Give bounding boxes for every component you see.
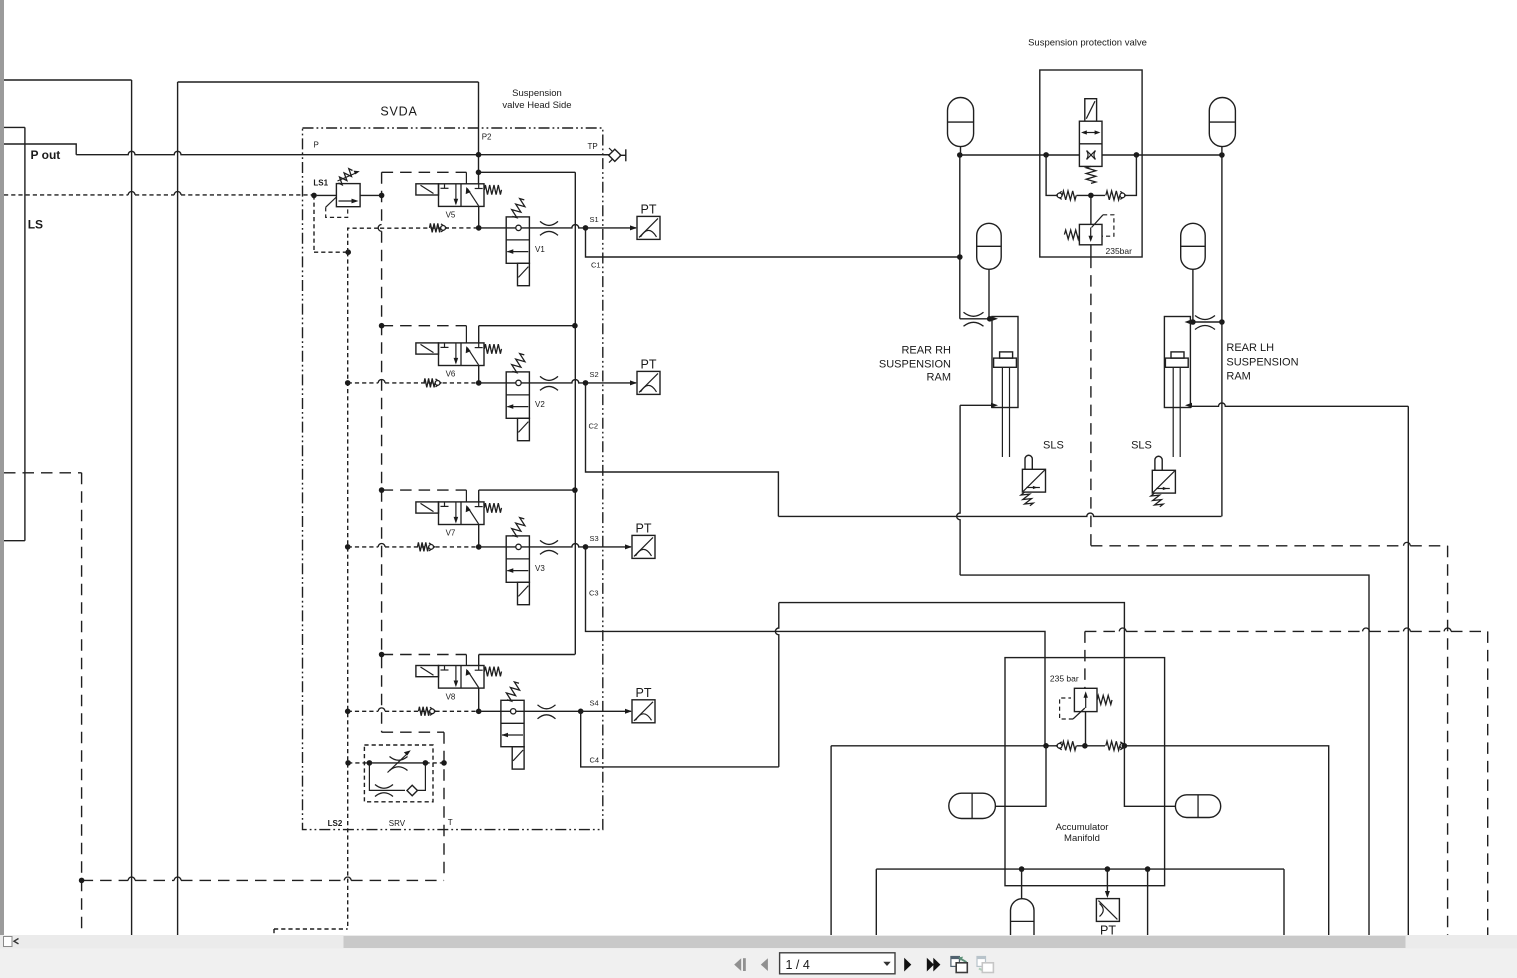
svg-text:V7: V7 bbox=[446, 529, 456, 538]
Accumulator Manifold enclosure bbox=[1005, 658, 1165, 886]
wire pilot stub into V7 bbox=[465, 490, 467, 502]
wire drain long-dash to far right bbox=[1091, 545, 1404, 547]
orifice row V7 bbox=[540, 540, 558, 544]
junction right accumulator bbox=[1219, 152, 1225, 158]
wire supply stub into V8 bbox=[478, 655, 480, 666]
junction left accumulator bbox=[957, 152, 963, 158]
SRV enclosure dashed box bbox=[364, 745, 433, 802]
arrowhead into LH ram head bbox=[1185, 320, 1192, 325]
svg-text:V2: V2 bbox=[535, 400, 545, 409]
wire P2 vertical bbox=[478, 82, 480, 184]
arrowhead into PT S4 bbox=[625, 709, 632, 714]
junction bottom drop bbox=[1145, 866, 1151, 872]
toolbar next-page button bbox=[904, 958, 911, 972]
wire accumulator RH stem bbox=[960, 147, 962, 155]
wire pilot dashed row V6 bbox=[348, 382, 379, 384]
wire between checks bbox=[1077, 194, 1106, 196]
junction supply rail V6 bbox=[572, 323, 578, 329]
wire drain long-dash down x=1447.6 bbox=[1447, 546, 1449, 935]
svg-text:SLS: SLS bbox=[1043, 440, 1064, 452]
relief valve 235 bar (manifold) bbox=[1060, 688, 1112, 719]
svg-text:PT: PT bbox=[641, 358, 657, 372]
wire RH rod vertical (hops C2 line) bbox=[957, 405, 960, 575]
wire V6 output stub bbox=[478, 366, 480, 383]
orifice LH ram head bbox=[1195, 316, 1215, 320]
junction V5 output on S line bbox=[476, 225, 482, 231]
wire prot valve right branch bbox=[1126, 155, 1137, 196]
accumulator rear LH lower bbox=[1181, 223, 1206, 269]
wire manifold check line left feed bbox=[831, 745, 1056, 747]
svg-text:T: T bbox=[448, 818, 453, 827]
svg-text:C3: C3 bbox=[589, 589, 599, 598]
arrowhead into RH ram head bbox=[991, 316, 998, 321]
arrowhead into PT S3 bbox=[625, 544, 632, 549]
wire LH head vertical upper bbox=[1221, 155, 1223, 322]
wire LH rod line down x=1408.3 bbox=[1407, 406, 1409, 935]
wire bottom drop x=1147.6 bbox=[1147, 869, 1149, 935]
svg-text:PT: PT bbox=[636, 686, 652, 700]
wire C3 to manifold bbox=[586, 547, 1046, 746]
junction supply rail V7 bbox=[572, 487, 578, 493]
wire accumulator head line y=155 bbox=[960, 154, 1222, 156]
wire LH rod port line bbox=[1190, 403, 1408, 406]
pressure reducing valve LS1 bbox=[326, 169, 360, 218]
wire pilot long-dash feed V5 bbox=[382, 171, 467, 173]
scrollbar track bbox=[0, 935, 1517, 949]
junction LS rail row V6 bbox=[345, 380, 351, 386]
wire manifold left feed down x=831.1 bbox=[830, 746, 832, 935]
svg-text:Suspension protection valve: Suspension protection valve bbox=[1028, 37, 1147, 48]
wire pilot long-dash feed V8 bbox=[382, 654, 467, 656]
pressure transducer PT S2 bbox=[637, 371, 660, 394]
wire LS1 input bbox=[317, 194, 337, 196]
junction C1 bbox=[957, 254, 963, 260]
accumulator manifold left bbox=[949, 793, 996, 818]
toolbar background bbox=[0, 949, 1517, 978]
svg-text:V5: V5 bbox=[446, 211, 456, 220]
svg-text:P: P bbox=[314, 141, 319, 150]
svg-text:235 bar: 235 bar bbox=[1050, 674, 1079, 684]
wire to PT S3 bbox=[586, 546, 632, 548]
wire C1 bbox=[586, 228, 960, 257]
svg-text:LS: LS bbox=[28, 218, 43, 232]
svg-text:S2: S2 bbox=[590, 370, 599, 379]
svg-text:S1: S1 bbox=[590, 215, 599, 224]
svg-text:REAR LH: REAR LH bbox=[1226, 342, 1274, 354]
junction SRV-B bbox=[423, 760, 429, 766]
svg-text:SLS: SLS bbox=[1131, 440, 1152, 452]
SRV bypass branch with orifice and check valve bbox=[369, 763, 425, 797]
wire pilot stub into V8 bbox=[465, 655, 467, 666]
junction LS line to LS1 bbox=[311, 193, 317, 199]
wire V5 output stub bbox=[478, 206, 480, 228]
junction RH accumulator stem bbox=[987, 316, 993, 322]
wire supply stub into V6 bbox=[478, 326, 480, 343]
svg-text:valve Head Side: valve Head Side bbox=[502, 100, 571, 111]
wire long-dash bottom jog bbox=[382, 731, 444, 733]
solenoid valve V8 bbox=[416, 666, 502, 689]
scrollbar thumb bbox=[344, 936, 1406, 948]
level sensor valve SLS right bbox=[1151, 456, 1176, 507]
wire manifold between checks bbox=[1077, 745, 1106, 747]
wire S line V7 bbox=[479, 544, 586, 547]
junction LH accumulator stem bbox=[1190, 319, 1196, 325]
accumulator manifold right bbox=[1175, 795, 1220, 818]
wire pilot dashed row V7 bbox=[348, 546, 379, 548]
wire accumulator LH stem bbox=[1221, 147, 1223, 155]
junction tank long-dash corner bbox=[79, 878, 85, 884]
arrowhead into LH ram rod side bbox=[1185, 403, 1192, 408]
junction LS rail row V8 bbox=[345, 709, 351, 715]
svg-text:RAM: RAM bbox=[1226, 371, 1250, 383]
wire to PT S2 bbox=[586, 382, 637, 384]
wire pilot long-dash feed V7 bbox=[382, 489, 467, 491]
svg-text:REAR RH: REAR RH bbox=[901, 345, 951, 357]
svg-text:V6: V6 bbox=[446, 370, 456, 379]
wire C2 down-right-down bbox=[586, 383, 779, 517]
wire V7 output stub bbox=[478, 525, 480, 547]
wire supply feed V7 bbox=[479, 489, 575, 491]
svg-text:Manifold: Manifold bbox=[1064, 833, 1100, 844]
wire pilot stub into V5 bbox=[465, 172, 467, 184]
wire SRV through line bbox=[369, 762, 425, 764]
wire drain long-dash center bbox=[1090, 257, 1092, 546]
wire pilot long-dash feed V6 bbox=[382, 325, 467, 327]
wire manifold relief pilot long-dash bbox=[1084, 631, 1086, 688]
wire SRV right dashed bbox=[425, 762, 444, 764]
wire supply feed V8 bbox=[479, 654, 575, 656]
cartridge valve V3 bbox=[506, 518, 529, 605]
wire manifold drain down x=1487.7 bbox=[1487, 631, 1489, 935]
wire RH head vertical bbox=[959, 155, 961, 319]
check-spring right (manifold) bbox=[1106, 741, 1120, 750]
svg-text:V3: V3 bbox=[535, 564, 545, 573]
orifice row V8 bbox=[538, 705, 556, 709]
junction V7 output on S line bbox=[476, 544, 482, 550]
svg-text:S4: S4 bbox=[590, 698, 599, 707]
wire LS1 output bbox=[360, 194, 382, 196]
svg-text:1 / 4: 1 / 4 bbox=[786, 958, 810, 972]
junction V8 output on S line bbox=[476, 709, 482, 715]
wire V8 output stub bbox=[478, 688, 480, 711]
junction S3 bbox=[583, 544, 589, 550]
arrowhead into PT S2 bbox=[630, 380, 637, 385]
wire prot valve left branch bbox=[1046, 155, 1056, 196]
wire manifold bottom header bbox=[876, 868, 1284, 870]
junction protection valve center bbox=[1088, 193, 1094, 199]
wire to bottom PT bbox=[1106, 869, 1108, 896]
junction SRV on LS rail bbox=[345, 760, 351, 766]
wire S line V6 bbox=[479, 380, 586, 383]
wire to bottom accumulator bbox=[1021, 869, 1023, 899]
wire into RH ram top bbox=[960, 318, 990, 320]
orifice row V5 bbox=[540, 221, 558, 225]
wire dashed bottom stub down bbox=[273, 929, 275, 935]
wire supply rail x=575.3 bbox=[574, 172, 576, 654]
wire pilot dashed row V8 bbox=[348, 710, 379, 712]
check-spring pilot symbol row V8 bbox=[419, 707, 430, 716]
svg-text:C4: C4 bbox=[590, 756, 600, 765]
REAR LH SUSPENSION RAM cylinder bbox=[1164, 317, 1190, 458]
arrowhead into PT S1 bbox=[630, 225, 637, 230]
wire to PT S1 bbox=[586, 227, 637, 229]
wire small box right edge bbox=[24, 127, 26, 540]
orifice RH ram head bbox=[964, 312, 984, 316]
toolbar first-page button (disabled) bbox=[734, 958, 746, 971]
svg-text:LS2: LS2 bbox=[328, 819, 343, 828]
solenoid valve V6 bbox=[416, 343, 502, 366]
junction S4 bbox=[578, 709, 584, 715]
junction protection valve left bbox=[1043, 152, 1049, 158]
junction pilot rail row V6 bbox=[379, 323, 385, 329]
svg-text:235bar: 235bar bbox=[1106, 246, 1133, 256]
junction pilot rail row V8 bbox=[379, 652, 385, 658]
pressure transducer PT S3 bbox=[632, 535, 655, 558]
wire tank long-dash vertical x=81.6 bbox=[81, 473, 83, 935]
wire pilot stub into V6 bbox=[465, 326, 467, 343]
wire T rail long-dash x=444 bbox=[443, 732, 445, 880]
REAR RH SUSPENSION RAM cylinder bbox=[992, 317, 1018, 458]
wire C2 to LH ram line bbox=[778, 513, 1221, 516]
wire P out step bbox=[4, 144, 76, 155]
wire RH lower accumulator stem bbox=[988, 269, 990, 319]
svg-text:V1: V1 bbox=[535, 245, 545, 254]
wire manifold check line to right down bbox=[1126, 746, 1329, 935]
junction SRV on T rail bbox=[441, 760, 447, 766]
junction protection valve right bbox=[1134, 152, 1140, 158]
wire S line V5 bbox=[479, 225, 586, 228]
wire vertical rail x=177.6 bbox=[177, 82, 179, 935]
svg-text:TP: TP bbox=[588, 142, 598, 151]
svg-text:P2: P2 bbox=[482, 133, 492, 142]
svg-text:SVDA: SVDA bbox=[380, 105, 417, 119]
svg-text:V8: V8 bbox=[446, 692, 456, 701]
wire LS dashed bbox=[4, 194, 128, 196]
junction manifold center bbox=[1082, 743, 1088, 749]
variable restrictor SRV bbox=[388, 750, 411, 772]
test point TP symbol bbox=[603, 148, 626, 163]
svg-text:Suspension: Suspension bbox=[512, 88, 562, 99]
wire tank long-dash bottom bbox=[82, 879, 129, 881]
wire bottom header left drop x=876.3 bbox=[875, 869, 877, 935]
wire pilot dashed row V5 bbox=[380, 227, 479, 229]
wire tank long-dash left stub bbox=[4, 472, 82, 474]
page number input box bbox=[780, 953, 895, 974]
wire to PT S4 bbox=[581, 710, 631, 712]
wire into LH ram top bbox=[1190, 321, 1222, 323]
junction manifold left (C3) bbox=[1043, 743, 1049, 749]
wire dashed bottom stub bbox=[274, 928, 348, 930]
wire C4 upper run to manifold bbox=[779, 603, 1125, 745]
wire vertical rail x=131.6 bbox=[131, 80, 133, 935]
junction LS rail row V7 bbox=[345, 544, 351, 550]
svg-text:LS1: LS1 bbox=[313, 178, 328, 187]
check-spring right (protection valve) bbox=[1106, 191, 1120, 200]
wire C4 riser (hops C3) bbox=[775, 603, 778, 767]
wire manifold to left accumulator bbox=[995, 746, 1046, 807]
wire pilot long-dash rail x=381.6 bbox=[381, 172, 383, 224]
wire LS pilot down bbox=[313, 195, 315, 252]
pressure transducer PT S1 bbox=[637, 216, 660, 239]
wire to relief 235bar bbox=[1090, 195, 1092, 224]
svg-text:Accumulator: Accumulator bbox=[1056, 822, 1109, 833]
wire supply stub into V7 bbox=[478, 490, 480, 502]
junction bottom PT bbox=[1105, 866, 1111, 872]
junction pilot rail row V7 bbox=[379, 487, 385, 493]
wire LH lower accumulator stem bbox=[1192, 269, 1194, 322]
svg-text:PT: PT bbox=[636, 522, 652, 536]
wire supply feed V6 bbox=[479, 325, 575, 327]
wire row1 pilot from LS node up/right bbox=[348, 228, 380, 252]
accumulator rear LH top bbox=[1209, 97, 1235, 146]
SVDA enclosure dash-dot box bbox=[303, 128, 603, 830]
pressure transducer PT S4 bbox=[632, 700, 655, 723]
junction P2 pilot supply bbox=[476, 170, 482, 176]
junction pilot rail / LS1 out bbox=[379, 193, 385, 199]
wire small box top bbox=[4, 126, 25, 128]
wire LS2 dashed rail down bbox=[347, 252, 349, 929]
relief valve 235bar (protection) bbox=[1064, 215, 1114, 245]
wire top box1 horizontal bbox=[4, 79, 132, 81]
junction LH head bbox=[1219, 319, 1225, 325]
junction bottom accumulator bbox=[1019, 866, 1025, 872]
junction S1 bbox=[583, 225, 589, 231]
sidebar page icon bbox=[4, 937, 13, 947]
toolbar prev-page button (disabled) bbox=[761, 958, 768, 971]
check-spring left (protection valve) bbox=[1056, 191, 1062, 199]
check-spring pilot symbol row V7 bbox=[418, 542, 429, 551]
wire supply feed row1 bbox=[479, 171, 576, 173]
wire manifold relief output bbox=[1085, 712, 1087, 746]
wire LH head vertical lower bbox=[1221, 322, 1223, 516]
accumulator rear RH top bbox=[948, 97, 974, 146]
junction S2 bbox=[583, 380, 589, 386]
junction SRV-A bbox=[367, 760, 373, 766]
junction V6 output on S line bbox=[476, 380, 482, 386]
level sensor valve SLS left bbox=[1021, 455, 1046, 506]
check-spring left (manifold) bbox=[1056, 742, 1062, 750]
check-spring pilot symbol row V5 bbox=[430, 223, 441, 232]
page left edge bar bbox=[0, 0, 4, 935]
cartridge valve V2 bbox=[506, 354, 529, 441]
wire RH rod drain to bottom bbox=[960, 575, 1369, 935]
wire SRV left dashed bbox=[348, 762, 369, 764]
svg-text:SUSPENSION: SUSPENSION bbox=[1226, 357, 1298, 369]
accumulator bottom (clipped) bbox=[1011, 899, 1035, 935]
check-spring pilot symbol row V6 bbox=[424, 378, 435, 387]
pressure transducer PT bottom bbox=[1096, 899, 1119, 922]
solenoid valve V7 bbox=[416, 502, 502, 525]
svg-text:C1: C1 bbox=[591, 261, 601, 270]
arrowhead into bottom PT bbox=[1105, 891, 1110, 898]
wire S line V8 bbox=[479, 710, 581, 712]
sidebar toggle arrow bbox=[14, 939, 19, 944]
previous view icon (enabled) bbox=[951, 957, 967, 973]
next view icon (disabled) bbox=[977, 957, 993, 973]
wire top box2 horizontal to P2 bbox=[178, 81, 479, 83]
arrowhead into RH ram rod side bbox=[991, 403, 998, 408]
svg-text:P out: P out bbox=[31, 148, 61, 162]
cartridge valve V4 bbox=[501, 682, 524, 769]
svg-text:SRV: SRV bbox=[389, 819, 406, 828]
accumulator rear RH lower bbox=[977, 223, 1002, 269]
svg-text:SUSPENSION: SUSPENSION bbox=[879, 358, 951, 370]
wire LS pilot bottom bbox=[314, 251, 348, 253]
svg-text:RAM: RAM bbox=[927, 371, 951, 383]
solenoid valve V5 bbox=[416, 184, 502, 207]
dropdown caret bbox=[883, 962, 890, 966]
wire P supply to TP bbox=[76, 151, 611, 154]
orifice row V6 bbox=[540, 376, 558, 380]
wire C4 bottom bbox=[581, 711, 779, 767]
wire RH rod port bbox=[960, 404, 991, 406]
wire manifold drain long-dash right bbox=[1085, 630, 1119, 632]
wire bottom header right drop x=1284 bbox=[1283, 869, 1285, 935]
cartridge valve V1 bbox=[506, 199, 529, 286]
junction manifold right (C4) bbox=[1122, 743, 1128, 749]
wire relief output bbox=[1090, 245, 1092, 257]
suspension protection valve enclosure bbox=[1040, 70, 1142, 257]
protection valve 2/2 poppet valve bbox=[1079, 99, 1102, 184]
wire small box bottom bbox=[4, 540, 25, 542]
svg-text:C2: C2 bbox=[589, 422, 599, 431]
svg-text:PT: PT bbox=[641, 203, 657, 217]
junction P2 on P line bbox=[476, 152, 482, 158]
junction LS pilot node bbox=[345, 249, 351, 255]
toolbar last-page button bbox=[927, 958, 941, 972]
svg-text:S3: S3 bbox=[590, 534, 599, 543]
wire manifold to right accumulator bbox=[1124, 746, 1175, 807]
